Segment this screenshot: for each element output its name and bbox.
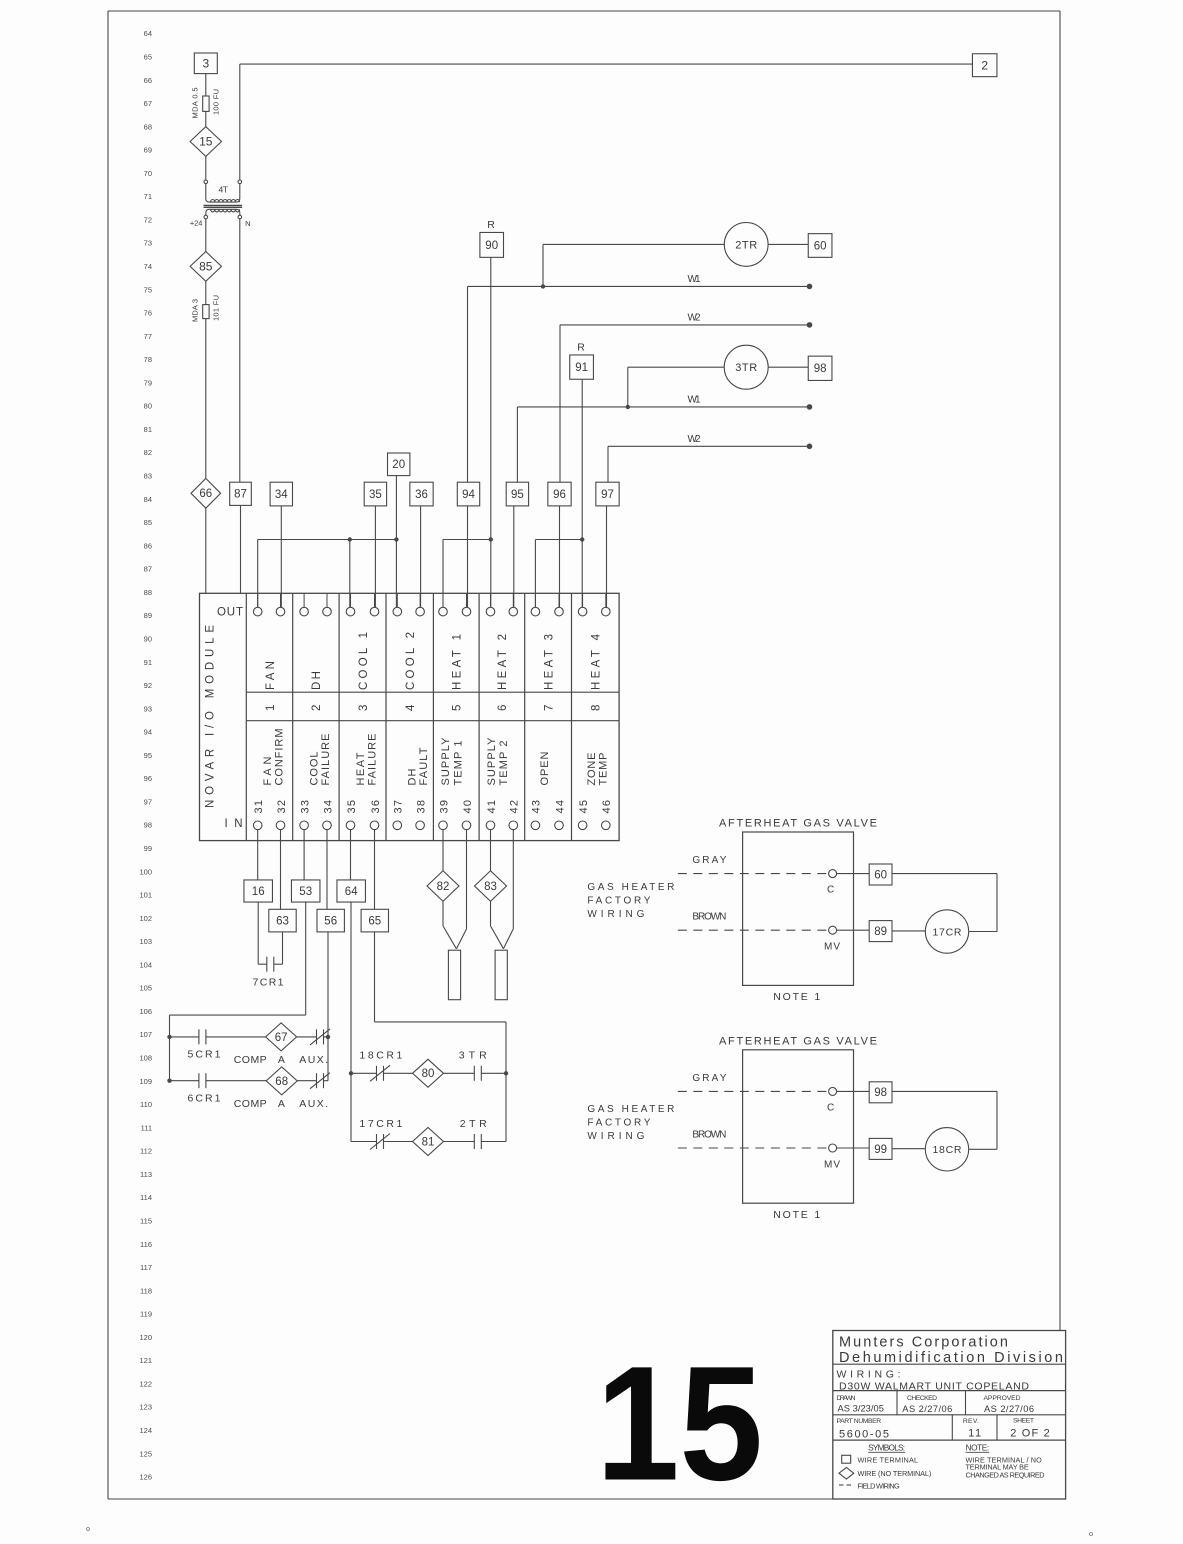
wire bbox=[205, 156, 207, 180]
svg-text:68: 68 bbox=[275, 1076, 288, 1088]
svg-text:38: 38 bbox=[415, 800, 427, 814]
svg-text:60: 60 bbox=[814, 240, 827, 252]
wire-node diamond 15 bbox=[190, 127, 221, 157]
svg-text:64: 64 bbox=[144, 29, 152, 38]
NC contact bbox=[376, 1066, 378, 1081]
wire IN36 to box 65 bbox=[374, 830, 376, 910]
svg-text:4: 4 bbox=[405, 704, 417, 711]
svg-text:109: 109 bbox=[139, 1077, 152, 1086]
wire bbox=[205, 508, 207, 593]
terminal box 3 bbox=[194, 53, 217, 74]
svg-text:39: 39 bbox=[438, 800, 450, 814]
svg-text:31: 31 bbox=[253, 800, 265, 814]
wire W2 first bbox=[560, 324, 810, 326]
module column separator 5 bbox=[478, 593, 480, 840]
svg-text:IN: IN bbox=[225, 818, 243, 830]
svg-text:AS 2/27/06: AS 2/27/06 bbox=[984, 1404, 1034, 1414]
svg-text:122: 122 bbox=[139, 1379, 152, 1388]
svg-text:OPEN: OPEN bbox=[539, 751, 551, 785]
svg-text:44: 44 bbox=[554, 800, 566, 814]
wire IN32 to box 63 bbox=[280, 830, 282, 910]
svg-text:83: 83 bbox=[144, 472, 152, 481]
svg-text:18CR: 18CR bbox=[933, 1144, 962, 1156]
contact row 17CR1 / 81 / 2TR bbox=[351, 1141, 377, 1143]
svg-text:ZONE: ZONE bbox=[586, 753, 598, 786]
field wiring dashed C bbox=[678, 1090, 829, 1092]
terminal box 65 bbox=[361, 909, 388, 932]
wire IN34 to box 56 bbox=[326, 830, 328, 910]
svg-text:7: 7 bbox=[543, 705, 555, 711]
svg-text:104: 104 bbox=[139, 960, 152, 969]
svg-text:W2: W2 bbox=[688, 434, 701, 445]
svg-text:W1: W1 bbox=[688, 395, 701, 406]
svg-text:75: 75 bbox=[144, 285, 152, 294]
svg-text:78: 78 bbox=[144, 355, 152, 364]
svg-text:Dehumidification Division: Dehumidification Division bbox=[839, 1350, 1063, 1366]
svg-text:40: 40 bbox=[462, 800, 474, 814]
svg-text:90: 90 bbox=[144, 634, 152, 643]
field wiring dashed MV bbox=[678, 929, 829, 931]
svg-text:120: 120 bbox=[139, 1333, 152, 1342]
svg-text:36: 36 bbox=[415, 489, 428, 501]
terminal box 87 bbox=[230, 482, 252, 505]
svg-text:73: 73 bbox=[144, 239, 152, 248]
fuse 101 FU MDA 3 bbox=[203, 305, 209, 319]
svg-text:56: 56 bbox=[324, 916, 337, 928]
terminal box 63 bbox=[269, 909, 296, 932]
NO contact bbox=[266, 957, 268, 972]
svg-text:COMP: COMP bbox=[234, 1098, 267, 1110]
svg-text:81: 81 bbox=[422, 1136, 435, 1148]
svg-text:SHEET: SHEET bbox=[1013, 1418, 1034, 1425]
svg-text:DRAWN: DRAWN bbox=[837, 1395, 856, 1402]
terminal box 96 bbox=[548, 482, 571, 506]
svg-text:110: 110 bbox=[140, 1100, 152, 1109]
junction bbox=[167, 1035, 171, 1039]
svg-text:116: 116 bbox=[140, 1240, 152, 1249]
svg-text:90: 90 bbox=[485, 240, 498, 252]
sensor diamond 83 bbox=[490, 830, 492, 871]
wire 20 down to COOL2 left bbox=[395, 476, 397, 608]
junction bbox=[489, 537, 493, 541]
svg-text:77: 77 bbox=[144, 332, 152, 341]
module OUT terminals col 6 bbox=[490, 593, 492, 607]
NC contact bbox=[316, 1029, 318, 1044]
svg-text:114: 114 bbox=[140, 1193, 152, 1202]
svg-text:101 FU: 101 FU bbox=[211, 295, 220, 321]
svg-text:3TR: 3TR bbox=[459, 1050, 487, 1062]
svg-text:CHECKED: CHECKED bbox=[907, 1395, 937, 1402]
svg-text:106: 106 bbox=[139, 1007, 152, 1016]
NC contact bbox=[376, 1134, 378, 1149]
svg-text:GAS HEATER: GAS HEATER bbox=[587, 882, 674, 893]
NO contact bbox=[198, 1073, 200, 1088]
svg-text:70: 70 bbox=[144, 169, 152, 178]
svg-text:36: 36 bbox=[370, 800, 382, 814]
svg-text:82: 82 bbox=[144, 448, 152, 457]
svg-text:35: 35 bbox=[369, 489, 382, 501]
svg-text:CHANGED AS REQUIRED: CHANGED AS REQUIRED bbox=[966, 1470, 1045, 1479]
svg-text:5CR1: 5CR1 bbox=[188, 1049, 221, 1061]
svg-text:2TR: 2TR bbox=[460, 1118, 487, 1130]
svg-text:AS 2/27/06: AS 2/27/06 bbox=[902, 1404, 952, 1414]
svg-text:98: 98 bbox=[874, 1087, 887, 1099]
svg-text:MV: MV bbox=[824, 1159, 840, 1170]
svg-text:101: 101 bbox=[139, 891, 152, 900]
svg-text:15: 15 bbox=[596, 1332, 763, 1515]
wire +24 down bbox=[205, 219, 207, 252]
wire branch to HEAT3 left bbox=[535, 539, 582, 541]
terminal box 36 bbox=[410, 482, 433, 506]
svg-text:83: 83 bbox=[484, 881, 497, 893]
wire-node diamond 85 bbox=[190, 252, 221, 282]
svg-text:43: 43 bbox=[531, 800, 543, 814]
module OUT terminals col 8 bbox=[582, 593, 584, 607]
svg-text:96: 96 bbox=[553, 489, 566, 501]
svg-text:A: A bbox=[278, 1098, 285, 1110]
module column separator 6 bbox=[524, 593, 526, 840]
svg-text:MV: MV bbox=[824, 942, 840, 953]
svg-text:W1: W1 bbox=[688, 274, 701, 285]
wire 53 down to COMP AUX rail bbox=[305, 902, 307, 1015]
svg-text:CONFIRM: CONFIRM bbox=[274, 729, 286, 786]
wire IN31 to box 16 bbox=[257, 830, 259, 880]
svg-text:76: 76 bbox=[144, 309, 152, 318]
svg-text:BROWN: BROWN bbox=[692, 1129, 726, 1140]
svg-text:71: 71 bbox=[144, 192, 152, 201]
junction bbox=[349, 1071, 353, 1075]
svg-text:37: 37 bbox=[393, 800, 405, 814]
svg-text:34: 34 bbox=[322, 800, 334, 814]
svg-text:97: 97 bbox=[144, 797, 152, 806]
svg-text:89: 89 bbox=[144, 611, 152, 620]
svg-text:35: 35 bbox=[346, 800, 358, 814]
NO contact bbox=[473, 1134, 475, 1149]
junction bbox=[541, 284, 545, 288]
svg-text:107: 107 bbox=[139, 1030, 152, 1039]
svg-text:COMP: COMP bbox=[234, 1054, 267, 1066]
svg-text:98: 98 bbox=[144, 821, 152, 830]
svg-text:BROWN: BROWN bbox=[692, 912, 726, 923]
2TR relay coil bbox=[724, 223, 768, 267]
svg-text:FIELD WIRING: FIELD WIRING bbox=[858, 1481, 901, 1490]
svg-text:99: 99 bbox=[144, 844, 152, 853]
svg-text:2: 2 bbox=[311, 705, 323, 711]
svg-text:92: 92 bbox=[144, 681, 152, 690]
module column separator 7 bbox=[571, 593, 573, 840]
svg-text:NOVAR I/O MODULE: NOVAR I/O MODULE bbox=[205, 625, 217, 808]
module OUT terminals col 4 bbox=[396, 593, 398, 607]
temp sensor probe 1 bbox=[448, 950, 460, 1000]
terminal box 95 bbox=[506, 482, 528, 506]
svg-text:123: 123 bbox=[139, 1403, 152, 1412]
svg-text:126: 126 bbox=[139, 1473, 152, 1482]
svg-text:66: 66 bbox=[199, 488, 212, 500]
relay coil 18CR bbox=[925, 1128, 968, 1171]
relay coil 17CR bbox=[925, 910, 968, 953]
module column separator 0 bbox=[245, 593, 247, 840]
svg-text:11: 11 bbox=[968, 1427, 981, 1439]
svg-text:100: 100 bbox=[139, 867, 152, 876]
svg-text:97: 97 bbox=[601, 489, 614, 501]
contact 7CR1 bbox=[257, 902, 259, 964]
svg-text:42: 42 bbox=[509, 800, 521, 814]
svg-text:15: 15 bbox=[199, 135, 213, 149]
module column separator 4 bbox=[432, 593, 434, 840]
module column separator 3 bbox=[385, 593, 387, 840]
svg-text:FAILURE: FAILURE bbox=[366, 734, 378, 786]
wire 90 down bbox=[490, 257, 492, 607]
module OUT terminals col 1 bbox=[257, 593, 259, 607]
svg-text:96: 96 bbox=[144, 774, 152, 783]
NO contact bbox=[473, 1066, 475, 1081]
svg-text:65: 65 bbox=[144, 52, 152, 61]
terminal box 94 bbox=[457, 482, 479, 506]
svg-text:FAN: FAN bbox=[265, 661, 277, 690]
svg-text:SUPPLY: SUPPLY bbox=[486, 737, 498, 786]
module OUT terminals col 7 bbox=[534, 593, 536, 607]
svg-text:87: 87 bbox=[144, 565, 152, 574]
svg-text:AFTERHEAT GAS VALVE: AFTERHEAT GAS VALVE bbox=[719, 1035, 877, 1047]
sensor diamond 82 bbox=[442, 830, 444, 871]
svg-text:2 OF 2: 2 OF 2 bbox=[1010, 1427, 1049, 1439]
svg-text:AFTERHEAT GAS VALVE: AFTERHEAT GAS VALVE bbox=[719, 818, 877, 830]
contact row 5CR1 / 67 bbox=[170, 1036, 200, 1038]
svg-text:117: 117 bbox=[140, 1263, 152, 1272]
wire 65 down and over right rail bbox=[374, 932, 376, 1022]
svg-text:WIRE TERMINAL: WIRE TERMINAL bbox=[858, 1455, 919, 1464]
svg-text:MDA 3: MDA 3 bbox=[191, 299, 200, 322]
svg-text:64: 64 bbox=[345, 886, 358, 898]
svg-text:60: 60 bbox=[874, 869, 887, 881]
svg-text:32: 32 bbox=[276, 800, 288, 814]
svg-text:OUT: OUT bbox=[217, 607, 243, 619]
svg-text:N: N bbox=[245, 219, 250, 228]
scan artifacts bbox=[87, 1528, 90, 1531]
svg-text:6CR1: 6CR1 bbox=[188, 1093, 221, 1105]
terminal box 98 bbox=[869, 1082, 892, 1103]
terminal box 60 bbox=[869, 864, 892, 885]
svg-text:53: 53 bbox=[299, 886, 312, 898]
wire 64 down left rail of TR loop bbox=[350, 902, 352, 1142]
svg-text:C: C bbox=[827, 885, 834, 896]
svg-text:PART NUMBER: PART NUMBER bbox=[837, 1418, 882, 1425]
wire bbox=[205, 74, 207, 96]
svg-text:111: 111 bbox=[141, 1123, 152, 1132]
terminal box 56 bbox=[317, 909, 344, 932]
svg-text:7CR1: 7CR1 bbox=[253, 977, 284, 989]
svg-text:APPROVED: APPROVED bbox=[984, 1395, 1021, 1402]
junction bbox=[326, 1035, 330, 1039]
terminal box 99 bbox=[869, 1138, 892, 1159]
svg-text:SUPPLY: SUPPLY bbox=[440, 737, 452, 786]
svg-text:REV.: REV. bbox=[963, 1418, 979, 1425]
wire 56 down to right rail bbox=[327, 932, 329, 1081]
NOVAR I/O module outline bbox=[200, 593, 620, 840]
svg-text:2: 2 bbox=[981, 58, 988, 72]
svg-text:FAILURE: FAILURE bbox=[320, 734, 332, 786]
svg-text:80: 80 bbox=[144, 402, 152, 411]
svg-text:20: 20 bbox=[392, 459, 405, 471]
module OUT terminals col 2 bbox=[303, 593, 305, 607]
svg-text:67: 67 bbox=[144, 99, 152, 108]
NC contact bbox=[316, 1073, 318, 1088]
wire IN42 bbox=[512, 830, 514, 929]
svg-text:A: A bbox=[278, 1054, 285, 1066]
svg-text:124: 124 bbox=[139, 1426, 152, 1435]
svg-text:C: C bbox=[827, 1102, 834, 1113]
terminal box 53 bbox=[291, 880, 320, 902]
svg-text:8: 8 bbox=[591, 705, 603, 711]
svg-text:DH: DH bbox=[407, 768, 419, 785]
svg-text:W2: W2 bbox=[688, 313, 701, 324]
svg-text:85: 85 bbox=[199, 259, 213, 273]
module row lines bbox=[246, 691, 619, 693]
svg-text:115: 115 bbox=[140, 1216, 152, 1225]
svg-text:87: 87 bbox=[234, 489, 247, 501]
svg-text:88: 88 bbox=[144, 588, 152, 597]
terminal box 97 bbox=[596, 482, 619, 506]
svg-text:112: 112 bbox=[140, 1147, 152, 1156]
terminal box 35 bbox=[364, 482, 386, 506]
svg-text:94: 94 bbox=[462, 489, 475, 501]
svg-text:105: 105 bbox=[139, 984, 152, 993]
svg-text:GAS HEATER: GAS HEATER bbox=[587, 1104, 674, 1115]
svg-text:TEMP: TEMP bbox=[598, 753, 610, 786]
svg-text:5: 5 bbox=[452, 705, 464, 711]
wire-node diamond 66 bbox=[191, 478, 221, 508]
terminal box 60 bbox=[808, 234, 832, 258]
wire FAN-left rail bbox=[258, 539, 397, 541]
svg-text:SYMBOLS:: SYMBOLS: bbox=[868, 1443, 905, 1453]
wire N up and top rail to box 2 bbox=[239, 64, 241, 180]
terminal C bbox=[829, 1087, 837, 1095]
svg-text:3: 3 bbox=[358, 705, 370, 711]
svg-text:103: 103 bbox=[139, 937, 152, 946]
svg-text:3TR: 3TR bbox=[735, 362, 757, 374]
terminal box 89 bbox=[869, 921, 892, 942]
module column separator 2 bbox=[338, 593, 340, 840]
svg-text:84: 84 bbox=[144, 495, 152, 504]
contact row 6CR1 / 68 bbox=[170, 1080, 200, 1082]
terminal box 90 bbox=[480, 232, 504, 257]
svg-text:66: 66 bbox=[144, 76, 152, 85]
wire 91 down bbox=[581, 379, 583, 607]
svg-text:91: 91 bbox=[575, 362, 588, 374]
svg-text:82: 82 bbox=[437, 881, 450, 893]
wire IN35 to box 64 bbox=[350, 830, 352, 880]
junction bbox=[626, 405, 630, 409]
svg-text:46: 46 bbox=[601, 800, 613, 814]
terminal C bbox=[829, 870, 837, 878]
drawing border frame bbox=[108, 10, 1060, 12]
wire 2TR left branch bbox=[543, 243, 724, 245]
svg-text:91: 91 bbox=[144, 658, 152, 667]
module OUT terminals col 3 bbox=[350, 593, 352, 607]
svg-text:2TR: 2TR bbox=[735, 239, 757, 251]
wire 3TR left branch bbox=[628, 366, 725, 368]
terminal box 20 bbox=[388, 453, 410, 476]
terminal box 98 bbox=[808, 356, 832, 380]
svg-text:98: 98 bbox=[814, 363, 827, 375]
module column separator 1 bbox=[292, 593, 294, 840]
module OUT terminals col 5 bbox=[442, 593, 444, 607]
svg-text:3: 3 bbox=[202, 56, 209, 70]
svg-text:1: 1 bbox=[265, 705, 277, 711]
svg-text:102: 102 bbox=[139, 914, 152, 923]
svg-text:+24: +24 bbox=[190, 219, 203, 228]
svg-text:69: 69 bbox=[144, 146, 152, 155]
NO contact bbox=[198, 1029, 200, 1044]
svg-text:HEAT: HEAT bbox=[355, 752, 367, 785]
svg-text:R: R bbox=[487, 219, 495, 231]
svg-text:67: 67 bbox=[275, 1032, 288, 1044]
svg-text:33: 33 bbox=[299, 800, 311, 814]
svg-text:41: 41 bbox=[486, 800, 498, 814]
wire N down to 87 bbox=[239, 219, 241, 482]
svg-text:WIRING:: WIRING: bbox=[837, 1369, 901, 1381]
svg-text:NOTE:: NOTE: bbox=[966, 1443, 990, 1453]
svg-text:45: 45 bbox=[578, 800, 590, 814]
svg-text:86: 86 bbox=[144, 541, 152, 550]
svg-text:118: 118 bbox=[140, 1286, 152, 1295]
fuse 100 FU MDA 0.5 bbox=[203, 96, 209, 111]
svg-text:AS 3/23/05: AS 3/23/05 bbox=[838, 1403, 884, 1413]
svg-text:FAN: FAN bbox=[262, 756, 274, 785]
wire IN33 to box 53 bbox=[303, 830, 305, 880]
junction bbox=[394, 537, 398, 541]
svg-text:108: 108 bbox=[139, 1054, 152, 1063]
svg-text:93: 93 bbox=[144, 704, 152, 713]
terminal box 64 bbox=[337, 880, 366, 902]
svg-text:89: 89 bbox=[874, 926, 887, 938]
terminal box 16 bbox=[244, 880, 273, 902]
svg-text:81: 81 bbox=[144, 425, 152, 434]
svg-text:65: 65 bbox=[368, 916, 381, 928]
svg-text:4T: 4T bbox=[219, 184, 229, 194]
svg-text:6: 6 bbox=[497, 705, 509, 711]
svg-text:100 FU: 100 FU bbox=[211, 89, 220, 115]
svg-text:121: 121 bbox=[139, 1356, 152, 1365]
svg-text:99: 99 bbox=[874, 1144, 887, 1156]
contact row 18CR1 / 80 / 3TR bbox=[351, 1072, 377, 1074]
junction bbox=[580, 537, 584, 541]
field wiring dashed MV bbox=[678, 1147, 829, 1149]
svg-text:MDA 0.5: MDA 0.5 bbox=[191, 88, 200, 119]
svg-text:113: 113 bbox=[140, 1170, 152, 1179]
wire bbox=[205, 111, 207, 126]
svg-text:D30W WALMART UNIT COPELAND: D30W WALMART UNIT COPELAND bbox=[839, 1380, 1029, 1392]
svg-text:79: 79 bbox=[144, 378, 152, 387]
terminal box 2 bbox=[972, 54, 997, 77]
svg-text:94: 94 bbox=[144, 728, 152, 737]
wire bbox=[205, 319, 207, 479]
svg-text:WIRE (NO TERMINAL): WIRE (NO TERMINAL) bbox=[858, 1469, 932, 1478]
junction bbox=[167, 1079, 171, 1083]
wire loop bbox=[892, 1148, 925, 1150]
svg-text:125: 125 bbox=[139, 1449, 152, 1458]
svg-text:72: 72 bbox=[144, 215, 152, 224]
svg-text:95: 95 bbox=[511, 489, 524, 501]
wire W1 second bbox=[517, 406, 809, 408]
terminal box 91 bbox=[570, 355, 594, 379]
svg-text:17CR: 17CR bbox=[933, 926, 962, 938]
svg-text:95: 95 bbox=[144, 751, 152, 760]
wire 3TR to 98 bbox=[768, 366, 808, 368]
3TR relay coil bbox=[724, 345, 768, 389]
terminal MV bbox=[829, 926, 837, 934]
wire branch to HEAT1 left bbox=[443, 539, 491, 541]
